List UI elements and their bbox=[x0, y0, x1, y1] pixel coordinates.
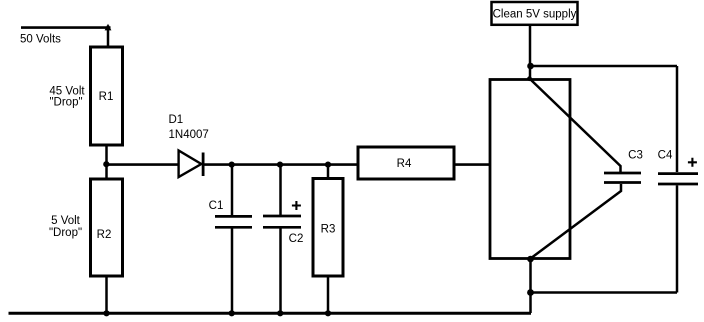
wire diode cathode to R4 bbox=[203, 163, 358, 166]
svg-text:1N4007: 1N4007 bbox=[169, 129, 209, 141]
wire U1 bottom to ground rail bbox=[529, 259, 532, 314]
svg-text:Clean 5V supply: Clean 5V supply bbox=[493, 9, 577, 21]
node U1 top bbox=[527, 76, 532, 81]
node C1 top bbox=[229, 162, 235, 168]
svg-text:5 Volt: 5 Volt bbox=[51, 215, 81, 227]
resistor R3 bbox=[327, 165, 330, 179]
output label box Clean 5V supply bbox=[492, 2, 578, 25]
node C2 top bbox=[277, 162, 283, 168]
node U1 bottom bbox=[527, 256, 534, 263]
diode D1 bbox=[179, 151, 202, 178]
wire R1 bottom to R2 top bbox=[105, 145, 108, 179]
node lower junction bbox=[527, 289, 534, 296]
svg-text:R1: R1 bbox=[99, 91, 114, 103]
svg-text:50 Volts: 50 Volts bbox=[20, 34, 61, 46]
wire R2 bottom to ground rail bbox=[105, 276, 108, 313]
svg-text:"Drop": "Drop" bbox=[49, 227, 82, 239]
capacitor C3 bbox=[604, 172, 641, 175]
svg-text:C1: C1 bbox=[209, 200, 224, 212]
resistor R2 bbox=[91, 179, 123, 276]
node C2 bottom on rail bbox=[277, 310, 283, 316]
capacitor C1 bbox=[231, 165, 234, 217]
label + polarity C2 bbox=[292, 201, 301, 210]
wire diagonal C3 bottom to U1 bottom bbox=[531, 184, 622, 259]
resistor R4 bbox=[358, 147, 454, 179]
label + polarity C4 bbox=[688, 158, 697, 167]
resistor R1 bbox=[91, 47, 123, 145]
svg-text:C2: C2 bbox=[289, 233, 304, 245]
svg-text:R4: R4 bbox=[397, 158, 412, 170]
wire top output to C4 bbox=[530, 65, 677, 68]
svg-text:D1: D1 bbox=[169, 114, 184, 126]
node R2 bottom on rail bbox=[103, 310, 109, 316]
ground rail (bottom) bbox=[9, 312, 532, 315]
node C1 bottom on rail bbox=[229, 310, 235, 316]
wire R4 to regulator box bbox=[454, 163, 490, 166]
wire 50V input horizontal bbox=[21, 26, 111, 29]
wire C4 bottom to U1 bottom junction bbox=[530, 291, 677, 294]
wire node to diode anode bbox=[107, 163, 179, 166]
regulator U1 box bbox=[490, 80, 570, 259]
svg-text:"Drop": "Drop" bbox=[49, 97, 82, 109]
wire node to R1 top bbox=[107, 26, 110, 48]
svg-text:R3: R3 bbox=[321, 224, 336, 236]
wire diagonal U1 top to C3 top bbox=[530, 79, 621, 173]
capacitor C2 bbox=[279, 165, 282, 216]
node R3 bottom on rail bbox=[325, 310, 331, 316]
node top wire junction bbox=[527, 63, 534, 70]
wire supply box down to U1 top bbox=[529, 25, 532, 80]
svg-text:C3: C3 bbox=[628, 150, 643, 162]
arrowhead at 50V node bbox=[105, 24, 112, 31]
svg-text:R2: R2 bbox=[97, 229, 112, 241]
node R1/R2/D1 junction bbox=[103, 161, 109, 167]
wire right rail down to C4 top bbox=[676, 66, 679, 172]
svg-text:C4: C4 bbox=[658, 150, 673, 162]
node R3 top bbox=[325, 162, 331, 168]
capacitor C4 bbox=[658, 172, 698, 175]
